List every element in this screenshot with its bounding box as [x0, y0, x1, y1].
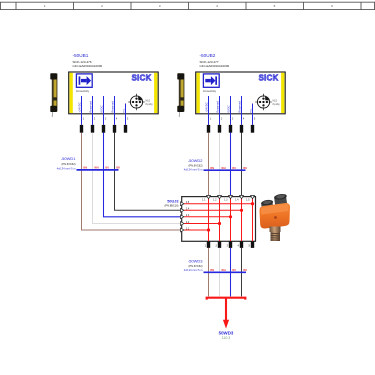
svg-text:8-polig: 8-polig: [273, 104, 281, 106]
box terminal 3: [226, 241, 232, 248]
top pin 1.4: [235, 195, 243, 201]
pin 5 stub: [125, 104, 127, 125]
svg-text:4x0,34 mm² 5 m: 4x0,34 mm² 5 m: [57, 166, 76, 170]
svg-text:(PN.8BC16): (PN.8BC16): [165, 204, 179, 208]
svg-text:WH: WH: [221, 167, 225, 170]
pin 5 terminal: [124, 125, 127, 133]
light curtain photo 2: [177, 73, 184, 117]
svg-text:4x0,34 mm² 5 m: 4x0,34 mm² 5 m: [184, 268, 203, 272]
svg-text:C4C-EA03010A10000: C4C-EA03010A10000: [200, 64, 230, 68]
svg-text:BU: BU: [232, 167, 236, 170]
pin 2 stub: [92, 96, 94, 125]
junction dot row 4: [218, 222, 221, 225]
svg-text:WH: WH: [94, 167, 98, 170]
svg-text:(PN.6VC62): (PN.6VC62): [189, 163, 203, 167]
pin 2 terminal: [91, 125, 94, 133]
pin 1 terminal: [80, 125, 83, 133]
pin 2 terminal: [218, 125, 221, 133]
svg-text:BK: BK: [243, 269, 247, 272]
pin 3 terminal: [102, 125, 105, 133]
junction dot row 1: [251, 202, 254, 205]
red internal wire column 3: [230, 199, 232, 242]
pin 4 stub: [114, 96, 116, 125]
svg-text:M12: M12: [146, 100, 151, 102]
pin 1 stub: [81, 96, 83, 125]
box terminal 4: [237, 241, 243, 248]
wire BK from -50UB2 to -50UJ3: [241, 133, 243, 197]
frame column numbers: [44, 4, 333, 8]
page frame header band: [0, 2, 375, 9]
top pin 1.1: [202, 195, 210, 201]
svg-text:Reserved: Reserved: [111, 101, 115, 113]
svg-text:0VDC: 0VDC: [227, 105, 231, 112]
pin 4 stub: [241, 96, 243, 125]
pin 4 terminal: [240, 125, 243, 133]
svg-text:SICK: SICK: [132, 73, 152, 82]
left pin 2.4: [181, 208, 190, 213]
box terminal 1: [204, 241, 210, 248]
M12 connector face symbol: [128, 94, 144, 110]
M12 connector face symbol: [255, 94, 271, 110]
M12 caption: [146, 100, 154, 105]
svg-text:C4C-EA03010A10000: C4C-EA03010A10000: [73, 64, 103, 68]
left pin 2.3: [181, 214, 190, 219]
red internal wire column 4: [241, 199, 243, 242]
svg-text:4x0,34 mm² 5 m: 4x0,34 mm² 5 m: [184, 167, 203, 171]
svg-text:-50UB2: -50UB2: [200, 53, 216, 58]
svg-text:WH: WH: [221, 269, 225, 272]
red internal wire row 5: [184, 229, 208, 231]
pin 4 terminal: [113, 125, 116, 133]
svg-text:Reserved: Reserved: [89, 101, 93, 113]
svg-text:-50WD3: -50WD3: [188, 259, 203, 264]
svg-text:-50WD1: -50WD1: [61, 156, 76, 161]
connector box -50UJ3: [182, 197, 256, 242]
box terminal 5: [248, 241, 254, 248]
left pin 2.2: [181, 221, 190, 226]
junction dot row 2: [240, 209, 243, 212]
wire BK from -50UB1 to -50UJ3: [115, 133, 182, 211]
svg-text:SICK: SICK: [259, 73, 279, 82]
box terminal 2: [215, 241, 221, 248]
svg-text:BK: BK: [116, 167, 120, 170]
wire WH from -50UB2 to -50UJ3: [219, 133, 221, 197]
red internal wire column 1: [208, 199, 210, 242]
svg-text:+24VDC: +24VDC: [78, 102, 82, 112]
wire BK from -50UJ3 down: [241, 248, 243, 297]
red collector bus: [207, 298, 246, 300]
sensor box -50UB1: [69, 72, 159, 114]
svg-text:+24VDC: +24VDC: [205, 102, 209, 112]
pin 2 stub: [219, 96, 221, 125]
top pin 1.3: [224, 195, 232, 201]
pin 3 stub: [230, 96, 232, 125]
cable -50WD3 line: [204, 271, 247, 273]
svg-text:(PN.6VC62): (PN.6VC62): [189, 264, 203, 268]
red internal wire row 3: [184, 216, 230, 218]
wire BN from -50UB1 to -50UJ3: [82, 133, 182, 231]
red internal wire column 2: [219, 199, 221, 242]
top pin 1.2: [213, 195, 221, 201]
svg-text:BU: BU: [105, 167, 109, 170]
svg-text:M12: M12: [273, 100, 278, 102]
left pin 2.5: [181, 201, 190, 206]
top pin 1.5: [246, 195, 254, 201]
splitter photo (orange Y-distributor): [259, 193, 290, 241]
left pin 2.1: [181, 227, 190, 232]
junction dot row 5: [207, 228, 210, 231]
junction dot row 3: [229, 215, 232, 218]
wire BN from -50UJ3 down: [208, 248, 210, 297]
svg-text:50WD3: 50WD3: [219, 330, 234, 335]
red internal wire column 5: [252, 199, 254, 242]
pin 5 terminal: [251, 125, 254, 133]
svg-text:BN: BN: [83, 167, 87, 170]
red internal wire row 4: [184, 223, 219, 225]
pin 1 stub: [208, 96, 210, 125]
svg-text:8-polig: 8-polig: [146, 104, 154, 106]
light curtain photo 1: [50, 73, 57, 117]
wire BU from -50UB2 to -50UJ3: [230, 133, 232, 197]
svg-text:Connectivity: Connectivity: [76, 90, 90, 93]
svg-text:n.c.: n.c.: [123, 108, 126, 113]
wire BN from -50UB2 to -50UJ3: [208, 133, 210, 197]
svg-text:(PN.6VC62): (PN.6VC62): [62, 162, 76, 166]
pin 3 terminal: [229, 125, 232, 133]
svg-text:50UJ3: 50UJ3: [167, 200, 178, 204]
wire BU from -50UB1 to -50UJ3: [104, 133, 182, 217]
red down arrow to 50WD3: [223, 298, 229, 329]
svg-text:110.3: 110.3: [222, 336, 231, 340]
svg-text:Connectivity: Connectivity: [203, 90, 217, 93]
wire BU from -50UJ3 down: [230, 248, 232, 297]
pin 5 stub: [252, 104, 254, 125]
cable -50WD1 line: [77, 169, 119, 171]
emitter icon: [76, 74, 92, 87]
svg-text:Reserved: Reserved: [238, 101, 242, 113]
M12 caption: [273, 100, 281, 105]
pin 3 stub: [103, 96, 105, 125]
svg-text:-50WD2: -50WD2: [188, 158, 203, 163]
sensor box -50UB2: [196, 72, 286, 114]
svg-text:BN: BN: [210, 167, 214, 170]
receiver icon: [203, 74, 219, 87]
pin 1 terminal: [207, 125, 210, 133]
red internal wire row 1: [184, 203, 252, 205]
svg-text:n.c.: n.c.: [250, 108, 253, 113]
wire WH from -50UJ3 down: [219, 248, 221, 297]
red internal wire row 2: [184, 209, 241, 211]
cable -50WD2 line: [204, 169, 246, 171]
svg-text:Reserved: Reserved: [216, 101, 220, 113]
svg-text:-50UB1: -50UB1: [73, 53, 89, 58]
svg-text:BN: BN: [210, 269, 214, 272]
wire WH from -50UB1 to -50UJ3: [93, 133, 182, 224]
svg-text:BU: BU: [232, 269, 236, 272]
svg-text:0VDC: 0VDC: [100, 105, 104, 112]
svg-text:BK: BK: [243, 167, 247, 170]
